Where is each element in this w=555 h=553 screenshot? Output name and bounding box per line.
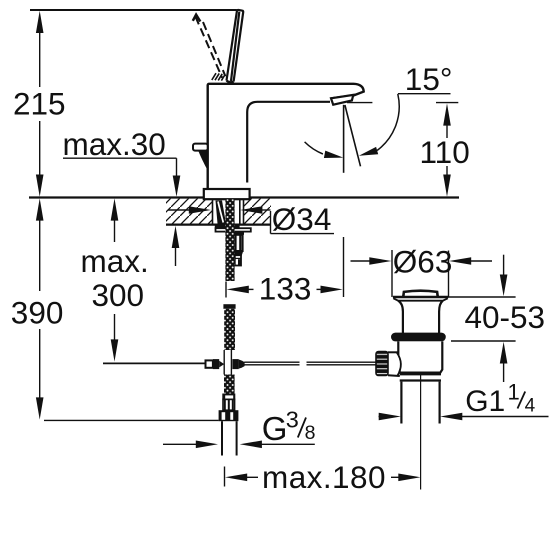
- svg-text:215: 215: [13, 85, 66, 121]
- dimension max.30: [63, 158, 180, 266]
- clamp block right: [232, 359, 238, 369]
- knurled knob: [376, 352, 388, 376]
- deck hatching right: [244, 199, 272, 224]
- pop-up plug dome cap: [403, 291, 438, 297]
- svg-text:max.180: max.180: [262, 459, 386, 495]
- svg-text:4: 4: [525, 395, 536, 416]
- svg-text:15°: 15°: [405, 61, 453, 97]
- rubber seal under deck: [215, 225, 240, 229]
- dimension max.180: [225, 467, 421, 487]
- svg-text:390: 390: [11, 295, 64, 331]
- pull rod right (double): [244, 362, 376, 365]
- aerator level reference line: [347, 102, 372, 104]
- base escutcheon plate: [204, 189, 250, 199]
- svg-text:8: 8: [305, 422, 316, 444]
- hose connector band: [222, 394, 235, 400]
- svg-text:133: 133: [259, 270, 312, 306]
- dimension 390: [36, 198, 219, 420]
- deck hole edges: [212, 199, 214, 225]
- dimension 40-53: [443, 255, 516, 382]
- rod end fitting box: [206, 360, 213, 367]
- lever dashed (alternate position): [193, 15, 226, 78]
- deck hatching left: [166, 199, 213, 224]
- hose neck above clamp: [223, 350, 225, 360]
- flexible hose segment C: [224, 375, 235, 394]
- svg-text:Ø34: Ø34: [272, 201, 332, 237]
- deck top line: [29, 196, 459, 198]
- pop-up flange: [393, 296, 448, 299]
- temperature-limit tab on body: [193, 144, 208, 171]
- swivel arc left with arrowhead: [305, 142, 323, 154]
- dimension G3/8: [163, 441, 315, 449]
- pop-up lower band: [400, 373, 441, 376]
- pop-up neck: [398, 301, 403, 334]
- dimension max.300: [111, 198, 119, 361]
- top reference line (215 upper extent): [30, 9, 237, 11]
- pop-up waste: diameter 63 extension lines: [391, 250, 393, 297]
- svg-text:1: 1: [508, 380, 520, 405]
- water stream 15-degree line: [345, 105, 361, 166]
- centerline of pop-up: [420, 372, 422, 490]
- lever pivot hash marks: [212, 73, 225, 80]
- dimension 215: [36, 11, 44, 197]
- dimension diameter 34: [168, 206, 334, 233]
- svg-text:G1: G1: [465, 385, 505, 418]
- nut taper: [233, 251, 242, 255]
- deck bottom line: [166, 224, 271, 226]
- clamp taper right: [239, 359, 245, 368]
- svg-text:max.30: max.30: [63, 126, 166, 162]
- stud with notch: [235, 255, 241, 265]
- flexible hose segment A (through deck): [225, 199, 234, 281]
- G3/8 tail pipe: [221, 421, 223, 455]
- hose neck below clamp: [223, 369, 225, 375]
- pop-up tail pipe: [400, 382, 402, 424]
- svg-text:40-53: 40-53: [465, 299, 546, 335]
- dimension diameter 63: [351, 257, 493, 265]
- pull rod left (single): [103, 362, 206, 364]
- water stream plumb line: [343, 105, 345, 173]
- svg-text:3: 3: [286, 407, 299, 433]
- aerator (tilted outlet): [331, 95, 353, 105]
- clamp hose channel lines: [223, 360, 225, 370]
- flexible hose segment B: [223, 304, 235, 309]
- mounting nut body: [233, 235, 242, 251]
- svg-text:300: 300: [92, 277, 145, 313]
- dimension G1 1/4: [379, 413, 549, 421]
- dimension 133: [226, 237, 344, 298]
- hose coupling nut G3/8: [219, 410, 239, 421]
- clamp wedge: [219, 361, 224, 368]
- clamp block left: [213, 359, 219, 369]
- faucet body and spout outline: [208, 84, 364, 189]
- svg-text:G: G: [262, 410, 288, 447]
- pop-up O-ring seal: [391, 333, 446, 342]
- washer under deck: [216, 228, 251, 231]
- dimension 110: [436, 103, 458, 197]
- svg-text:110: 110: [420, 134, 470, 170]
- pop-up body: [398, 341, 442, 372]
- spout inner line: [247, 102, 330, 183]
- lever solid: [227, 10, 244, 82]
- pop-up side horn (bell): [388, 353, 400, 374]
- swivel arc right with arrowhead: [377, 94, 399, 151]
- svg-text:max.: max.: [81, 243, 149, 279]
- svg-text:Ø63: Ø63: [393, 244, 453, 280]
- stabilizing wedge in hole: [216, 201, 227, 224]
- mounting nut upper: [232, 231, 244, 234]
- hose ribbed nipple: [223, 399, 235, 410]
